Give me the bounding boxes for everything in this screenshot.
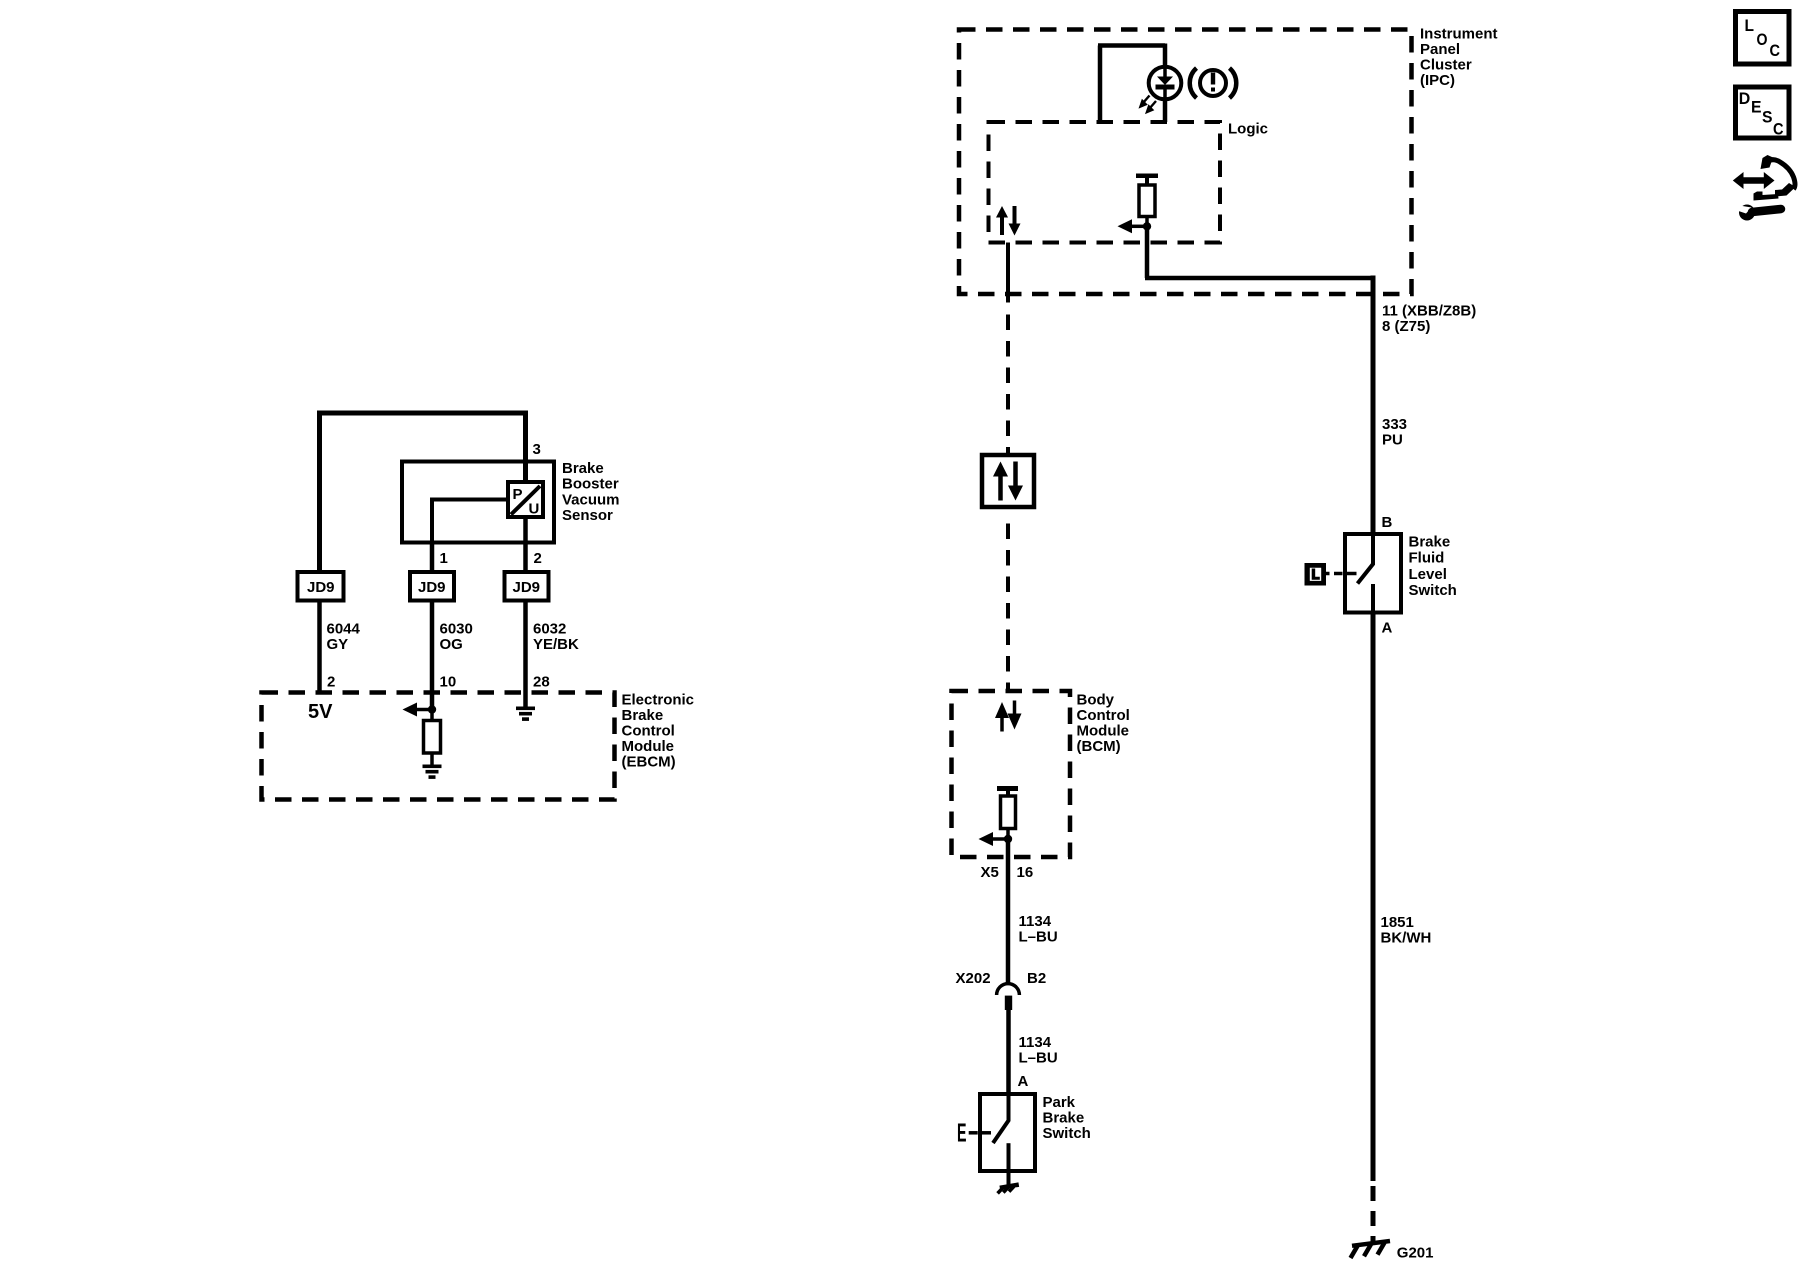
svg-text:1851: 1851 <box>1381 914 1414 931</box>
pin A (Park Brake Switch) <box>1018 1073 1029 1090</box>
svg-text:Switch: Switch <box>1043 1125 1091 1142</box>
ground (chassis, Park Brake Switch) <box>998 1185 1019 1194</box>
svg-text:Cluster: Cluster <box>1420 57 1472 74</box>
svg-text:JD9: JD9 <box>513 579 541 596</box>
svg-text:Control: Control <box>622 723 675 740</box>
svg-text:A: A <box>1382 620 1393 637</box>
svg-text:(BCM): (BCM) <box>1077 738 1121 755</box>
label: Body Control Module (BCM) <box>1077 692 1130 756</box>
light-emission arrows of indicator <box>1141 96 1157 113</box>
node: junction below BCM resistor <box>1004 835 1012 843</box>
svg-text:E: E <box>1751 98 1762 117</box>
label: G201 <box>1397 1245 1434 1262</box>
svg-text:A: A <box>1018 1073 1029 1090</box>
svg-text:Control: Control <box>1077 707 1130 724</box>
svg-text:Logic: Logic <box>1228 121 1268 138</box>
node: junction below Logic resistor <box>1143 222 1151 230</box>
svg-text:E: E <box>957 1118 967 1148</box>
wire: IPC indicator loop <box>1098 44 1165 123</box>
svg-text:O: O <box>1757 30 1768 49</box>
label: circuit 6044 GY <box>327 621 361 654</box>
pin A (Brake Fluid Level Switch) <box>1382 620 1393 637</box>
label: Park Brake Switch <box>1043 1094 1091 1142</box>
svg-text:JD9: JD9 <box>307 579 335 596</box>
svg-text:Module: Module <box>622 738 675 755</box>
svg-text:C: C <box>1773 120 1784 139</box>
svg-text:Vacuum: Vacuum <box>562 491 620 508</box>
label: circuit 6032 YE/BK <box>533 621 579 654</box>
svg-text:YE/BK: YE/BK <box>533 636 579 653</box>
svg-text:Electronic: Electronic <box>622 692 695 709</box>
wire: Brake Fluid Level Switch fixed contact <box>1371 584 1375 613</box>
module: Instrument Panel Cluster (IPC) dashed box <box>959 30 1412 295</box>
serial data link box <box>982 455 1034 507</box>
wire 1134 L-BU: X202 to Park Brake Switch pin A <box>1006 1010 1011 1094</box>
wire: Park Brake Switch fixed contact to ground <box>1007 1143 1011 1186</box>
node 5V (inside EBCM) <box>308 701 333 723</box>
label: circuit 1851 BK/WH <box>1381 914 1432 947</box>
svg-text:P: P <box>513 486 523 503</box>
svg-text:L–BU: L–BU <box>1019 1050 1058 1067</box>
svg-text:OG: OG <box>440 636 463 653</box>
pin 28 (EBCM) <box>533 674 550 691</box>
wire 333 PU: IPC to Brake Fluid Level Switch pin B <box>1371 276 1376 535</box>
svg-text:2: 2 <box>534 550 542 567</box>
svg-text:B2: B2 <box>1027 970 1046 987</box>
svg-text:S: S <box>1762 108 1773 127</box>
svg-text:6032: 6032 <box>533 621 566 638</box>
svg-text:8 (Z75): 8 (Z75) <box>1382 318 1430 335</box>
svg-text:Brake: Brake <box>1409 533 1451 550</box>
ground G201 (chassis) <box>1351 1241 1391 1258</box>
svg-text:3: 3 <box>533 441 541 458</box>
module: Electronic Brake Control Module (EBCM) dashed box <box>262 693 615 800</box>
voltage supply T-bar (BCM pull-up) <box>997 786 1018 796</box>
icon: DESC button <box>1736 87 1790 139</box>
resistor (Logic pull-up) <box>1139 185 1155 226</box>
svg-text:28: 28 <box>533 674 550 691</box>
serial data arrows (inside BCM) <box>995 701 1022 732</box>
svg-text:16: 16 <box>1017 864 1034 881</box>
svg-text:Switch: Switch <box>1409 582 1457 599</box>
svg-text:6044: 6044 <box>327 621 361 638</box>
serial data arrows (inside Logic) <box>996 206 1021 236</box>
pin 2 (sensor) <box>534 550 542 567</box>
serial data arrows (in link box) <box>993 462 1023 501</box>
svg-text:G201: G201 <box>1397 1245 1434 1262</box>
svg-text:B: B <box>1382 514 1393 531</box>
label: Brake Fluid Level Switch <box>1409 533 1457 599</box>
connector JD9 (splice pack, left) <box>298 572 344 601</box>
component: Brake Booster Vacuum Sensor box <box>402 462 554 543</box>
pin 2 (EBCM) <box>327 674 335 691</box>
label: X202 <box>956 970 991 987</box>
svg-text:X5: X5 <box>981 864 999 881</box>
wire: loop from EBCM pin 2 up and over to sensor pin 3 <box>317 413 528 572</box>
svg-text:6030: 6030 <box>440 621 473 638</box>
svg-text:Brake: Brake <box>1043 1110 1085 1127</box>
switch position L box with mechanical link <box>1305 563 1357 586</box>
svg-text:Instrument: Instrument <box>1420 26 1498 43</box>
component: Brake Fluid Level Switch box <box>1345 534 1401 613</box>
indicator LED (brake warning lamp) <box>1149 67 1182 100</box>
svg-text:10: 10 <box>440 674 457 691</box>
label: circuit 333 PU <box>1382 416 1407 449</box>
wire: sensor pin 1 to JD9 middle <box>430 543 435 573</box>
wire 1851 BK/WH: switch to G201 <box>1371 613 1376 1242</box>
svg-text:333: 333 <box>1382 416 1407 433</box>
svg-text:PU: PU <box>1382 432 1403 449</box>
svg-text:(EBCM): (EBCM) <box>622 754 676 771</box>
resistor (BCM pull-up) <box>1001 796 1016 839</box>
ground (signal ground below resistor) <box>423 765 442 779</box>
wire 6032 YE/BK: JD9 to EBCM pin 28 <box>523 601 528 708</box>
svg-text:GY: GY <box>327 636 349 653</box>
connector JD9 (splice pack, middle) <box>410 572 454 601</box>
signal arrow (input) at pin 10 <box>403 703 433 717</box>
label: Logic <box>1228 121 1268 138</box>
switch position E with mechanical link <box>957 1118 991 1148</box>
wire: sensor pin 1 internal <box>432 500 508 543</box>
brake warning symbol ((!)) <box>1190 68 1237 98</box>
component: Park Brake Switch box <box>980 1094 1035 1171</box>
pin B (Brake Fluid Level Switch) <box>1382 514 1393 531</box>
pin 1 (sensor) <box>440 550 448 567</box>
pin 11 (XBB/Z8B) / pin 8 (Z75) of IPC <box>1382 303 1476 336</box>
svg-text:Park: Park <box>1043 1094 1076 1111</box>
signal arrow (input) at Logic junction <box>1118 219 1148 233</box>
svg-text:BK/WH: BK/WH <box>1381 930 1432 947</box>
svg-text:Fluid: Fluid <box>1409 550 1445 567</box>
wire 1134 L-BU: BCM pin X5-16 to X202 <box>1006 839 1011 984</box>
svg-text:U: U <box>529 501 540 518</box>
svg-text:L–BU: L–BU <box>1019 929 1058 946</box>
resistor (EBCM pull-down) <box>424 710 441 766</box>
svg-text:C: C <box>1770 41 1781 60</box>
switch blade (Brake Fluid Level Switch) <box>1358 534 1374 584</box>
label: B2 <box>1027 970 1046 987</box>
switch blade (Park Brake Switch) <box>993 1094 1009 1143</box>
svg-text:Brake: Brake <box>562 460 604 477</box>
label: Electronic Brake Control Module (EBCM) <box>622 692 695 771</box>
wire: serial data link box to BCM (dashed) <box>1006 524 1010 692</box>
svg-text:1: 1 <box>440 550 448 567</box>
label: Brake Booster Vacuum Sensor <box>562 460 620 524</box>
svg-text:Brake: Brake <box>622 707 664 724</box>
svg-text:Level: Level <box>1409 566 1447 583</box>
connector X202 pin B2 <box>997 984 1020 1010</box>
svg-text:1134: 1134 <box>1019 913 1052 930</box>
wire 6044 GY: JD9 to EBCM pin 2 <box>317 601 322 693</box>
svg-text:Booster: Booster <box>562 476 619 493</box>
module: Body Control Module (BCM) dashed box <box>952 691 1071 857</box>
label: circuit 1134 L-BU (upper) <box>1019 913 1058 946</box>
pin X5 | 16 (BCM) <box>981 864 1034 881</box>
svg-text:5V: 5V <box>308 701 333 723</box>
signal arrow (input) at BCM junction <box>979 832 1009 846</box>
wire 6030 OG: JD9 to EBCM pin 10 <box>430 601 435 710</box>
node: junction at EBCM pin 10 <box>428 705 436 713</box>
label: Instrument Panel Cluster (IPC) <box>1420 26 1498 90</box>
svg-text:Sensor: Sensor <box>562 507 613 524</box>
label: circuit 6030 OG <box>440 621 473 654</box>
svg-text:(IPC): (IPC) <box>1420 72 1455 89</box>
svg-text:11 (XBB/Z8B): 11 (XBB/Z8B) <box>1382 303 1476 320</box>
svg-text:JD9: JD9 <box>418 579 446 596</box>
pin 10 (EBCM) <box>440 674 457 691</box>
svg-text:Body: Body <box>1077 692 1115 709</box>
voltage supply T-bar (Logic pull-up) <box>1136 174 1158 186</box>
Logic dashed box <box>989 122 1221 243</box>
icon: related-info arrows and wrench <box>1733 155 1796 221</box>
wire: Logic junction down and right to IPC pin 11/8 <box>1145 226 1373 278</box>
label: circuit 1134 L-BU (lower) <box>1019 1034 1058 1067</box>
svg-text:2: 2 <box>327 674 335 691</box>
svg-text:D: D <box>1739 89 1751 108</box>
svg-text:1134: 1134 <box>1019 1034 1052 1051</box>
svg-text:Panel: Panel <box>1420 41 1460 58</box>
connector JD9 (splice pack, right) <box>505 572 549 601</box>
ground (signal ground at pin 28) <box>516 707 535 721</box>
icon: LOC button (top right) <box>1736 12 1790 65</box>
wire: serial data from Logic to BCM (solid then dashed) <box>1006 243 1010 456</box>
wire: sensor pin 2 to JD9 right <box>523 517 528 572</box>
pressure transducer symbol P/U <box>508 482 543 518</box>
svg-text:Module: Module <box>1077 723 1130 740</box>
svg-text:X202: X202 <box>956 970 991 987</box>
pin 3 (sensor) <box>533 441 541 458</box>
svg-text:L: L <box>1745 16 1755 35</box>
